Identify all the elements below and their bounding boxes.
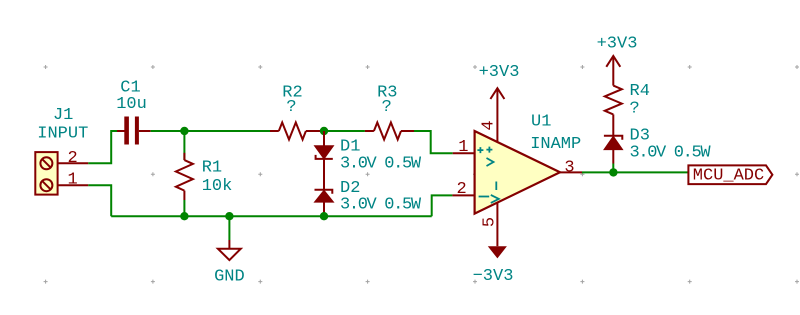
node D junction (GND) bbox=[225, 212, 233, 220]
svg-text:INAMP: INAMP bbox=[530, 135, 581, 154]
wire bottom bus to op-amp pin 2 bbox=[432, 195, 453, 216]
svg-text:INPUT: INPUT bbox=[37, 125, 88, 144]
svg-text:MCU_ADC: MCU_ADC bbox=[693, 167, 764, 186]
U1 pin name V- bbox=[495, 182, 497, 191]
ground symbol bbox=[218, 216, 241, 260]
wire node B to R3 bbox=[324, 130, 365, 132]
node F junction (D3/output) bbox=[609, 168, 617, 176]
svg-text:?: ? bbox=[286, 98, 296, 117]
svg-text:R4: R4 bbox=[630, 82, 650, 101]
svg-text:2: 2 bbox=[67, 149, 77, 168]
J1 pin 1 stub bbox=[58, 184, 89, 186]
svg-text:?: ? bbox=[382, 98, 392, 117]
wire J1 pin1 to bottom bus bbox=[88, 185, 111, 216]
connector J1 bbox=[35, 152, 57, 195]
svg-text:1: 1 bbox=[67, 171, 77, 190]
svg-text:GND: GND bbox=[214, 267, 245, 286]
svg-text:3.0V 0.5W: 3.0V 0.5W bbox=[340, 196, 422, 215]
U1 pin name V+ bbox=[486, 147, 492, 153]
resistor R3 bbox=[365, 123, 414, 140]
U1 pin 2 bbox=[452, 194, 474, 196]
svg-text:−3V3: −3V3 bbox=[473, 267, 514, 286]
power -3V3 bbox=[488, 246, 507, 258]
resistor R1 bbox=[176, 131, 193, 216]
U1 pin 1 bbox=[453, 152, 475, 154]
wire op-amp output to label bbox=[582, 171, 688, 173]
svg-text:?: ? bbox=[630, 99, 640, 118]
bottom bus wire bbox=[111, 215, 432, 217]
svg-text:+3V3: +3V3 bbox=[597, 35, 638, 54]
svg-text:1: 1 bbox=[458, 138, 468, 157]
U1 pin 5 (V-) bbox=[496, 203, 498, 247]
svg-text:3.0V 0.5W: 3.0V 0.5W bbox=[340, 154, 422, 173]
U1 pin name - bbox=[479, 196, 490, 198]
wire C1 to node A bbox=[151, 130, 185, 132]
wire node A to R2 bbox=[184, 130, 270, 132]
power +3V3 (op-amp) bbox=[490, 88, 504, 99]
capacitor C1 bbox=[117, 117, 151, 145]
svg-text:3.0V 0.5W: 3.0V 0.5W bbox=[630, 144, 712, 163]
svg-text:5: 5 bbox=[480, 217, 499, 227]
node E junction (D2 bottom) bbox=[320, 212, 328, 220]
svg-text:4: 4 bbox=[480, 120, 499, 130]
zener diode D1 bbox=[315, 131, 334, 159]
svg-text:2: 2 bbox=[456, 180, 466, 199]
svg-text:10k: 10k bbox=[202, 177, 233, 196]
power +3V3 (R4) bbox=[606, 56, 620, 71]
svg-text:J1: J1 bbox=[53, 106, 73, 125]
wire J1 pin2 to C1 bbox=[88, 131, 117, 163]
zener diode D3 bbox=[604, 136, 623, 173]
node B junction bbox=[320, 127, 328, 135]
svg-text:10u: 10u bbox=[116, 95, 147, 114]
U1 pin 4 (V+) bbox=[496, 88, 498, 142]
op-amp U1 bbox=[475, 131, 560, 214]
wire R3 to op-amp pin 1 bbox=[414, 131, 453, 153]
zener diode D2 bbox=[315, 190, 334, 216]
resistor R4 bbox=[605, 71, 622, 136]
global label MCU_ADC bbox=[688, 165, 772, 185]
J1 pin 2 stub bbox=[58, 162, 89, 164]
node C junction (R1 bottom) bbox=[180, 212, 188, 220]
wire D1 to D2 bbox=[323, 159, 325, 190]
svg-text:U1: U1 bbox=[531, 113, 551, 132]
node A junction bbox=[180, 127, 188, 135]
resistor R2 bbox=[270, 123, 320, 140]
U1 pin name + bbox=[477, 147, 483, 153]
svg-text:R1: R1 bbox=[202, 159, 222, 178]
U1 pin 3 (output) bbox=[560, 171, 582, 173]
wire R2 to node B bbox=[320, 130, 324, 132]
svg-text:3: 3 bbox=[564, 159, 574, 178]
svg-text:+3V3: +3V3 bbox=[479, 63, 520, 82]
